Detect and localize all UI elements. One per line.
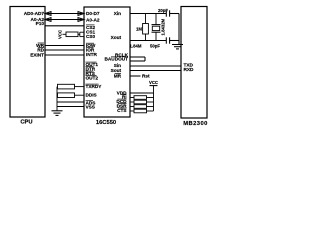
- svg-text:AD0-AD7: AD0-AD7: [24, 11, 45, 17]
- svg-text:EXINT: EXINT: [30, 53, 44, 59]
- svg-text:Xout: Xout: [111, 35, 122, 41]
- svg-text:1M: 1M: [136, 27, 142, 32]
- svg-text:Xin: Xin: [114, 11, 121, 17]
- svg-text:RXD: RXD: [184, 67, 195, 73]
- svg-text:50pF: 50pF: [150, 43, 160, 48]
- svg-text:MR: MR: [114, 74, 122, 80]
- svg-text:Sin: Sin: [114, 63, 121, 69]
- svg-text:VSS: VSS: [86, 105, 95, 111]
- svg-text:BAUDOUT: BAUDOUT: [105, 56, 129, 62]
- svg-text:1.84M: 1.84M: [130, 43, 142, 48]
- svg-text:Rst: Rst: [142, 74, 150, 80]
- svg-text:VCC: VCC: [149, 80, 158, 85]
- svg-text:Sout: Sout: [111, 68, 122, 74]
- svg-text:CS0: CS0: [86, 34, 96, 40]
- svg-text:1.8432M: 1.8432M: [161, 18, 166, 35]
- svg-text:OUT2: OUT2: [86, 76, 99, 82]
- svg-text:MB2300: MB2300: [183, 121, 208, 127]
- svg-text:CTS: CTS: [117, 108, 126, 114]
- svg-text:16C550: 16C550: [96, 120, 116, 126]
- svg-text:CPU: CPU: [20, 120, 32, 126]
- svg-text:D0-D7: D0-D7: [86, 11, 100, 17]
- svg-text:TXRDY: TXRDY: [86, 84, 103, 90]
- svg-text:A0-A2: A0-A2: [86, 17, 100, 23]
- svg-text:DDIS: DDIS: [86, 93, 97, 99]
- svg-text:VCC: VCC: [58, 30, 63, 39]
- svg-text:20pF: 20pF: [158, 8, 168, 13]
- svg-text:P10: P10: [36, 21, 45, 27]
- svg-text:INTR: INTR: [86, 52, 98, 58]
